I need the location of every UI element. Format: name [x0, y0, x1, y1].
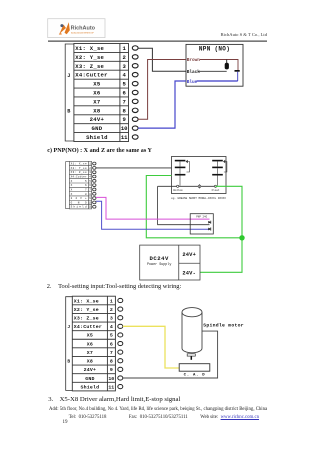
svg-text:NPN (NO): NPN (NO) [199, 45, 230, 52]
svg-text:PNP 24G: PNP 24G [196, 216, 207, 219]
header company name [221, 33, 267, 38]
wire brown label [187, 58, 201, 63]
svg-text:24V+: 24V+ [182, 252, 196, 258]
svg-text:2: 2 [110, 307, 113, 313]
svg-text:X6: X6 [87, 341, 93, 347]
wire blue pin10 GND to NPN box [138, 81, 186, 128]
svg-text:B: B [67, 358, 70, 364]
spindle motor M1 (cylinder) [182, 308, 202, 353]
wire green relay left to junction [146, 176, 242, 238]
terminal labels column (tool-setting) [74, 298, 102, 390]
svg-text:X1: X_se: X1: X_se [75, 45, 104, 52]
svg-text:X5: X5 [93, 81, 101, 88]
logo wordmark [71, 26, 96, 35]
pin terminals (tool-setting circles) [118, 298, 123, 388]
svg-text:J: J [67, 73, 70, 79]
label DC24V [147, 255, 171, 267]
connector block (tool-setting) [72, 296, 115, 391]
svg-text:X8: X8 [87, 359, 93, 365]
svg-text:X3: Z_se: X3: Z_se [75, 63, 104, 70]
svg-text:X2: Y_se: X2: Y_se [74, 307, 99, 313]
svg-text:24V+: 24V+ [84, 367, 97, 373]
svg-text:Bottom: Bottom [173, 189, 183, 192]
bracket J/B (tool-setting block) [66, 297, 73, 391]
bracket label J [67, 73, 70, 79]
svg-text:11: 11 [108, 384, 114, 390]
svg-text:24V-: 24V- [182, 271, 196, 277]
DC24V power supply PS1 [140, 245, 200, 280]
svg-text:7: 7 [123, 98, 126, 105]
svg-text:X2: Y_se: X2: Y_se [71, 167, 87, 170]
label Spindle motor [203, 323, 244, 329]
svg-text:Black: Black [187, 70, 201, 75]
svg-text:Shield: Shield [71, 205, 87, 209]
svg-text:8: 8 [110, 359, 113, 365]
load bar symbol [235, 70, 240, 81]
svg-text:5: 5 [110, 333, 113, 339]
svg-text:X7: X7 [87, 350, 93, 356]
svg-text:X5: X5 [87, 333, 93, 339]
svg-text:9: 9 [110, 367, 113, 373]
label Float [212, 188, 220, 192]
svg-text:A11 A12 A15 A18 SERIES DSP: A11 A12 A15 A18 SERIES DSP [71, 31, 95, 34]
green junction node [239, 235, 244, 240]
svg-text:Power Supply: Power Supply [147, 262, 171, 267]
pin numbers column 1-11 [121, 45, 128, 141]
svg-text:Brown: Brown [187, 58, 201, 63]
paragraph c) PNP note [47, 148, 152, 154]
cutter tip [190, 356, 192, 360]
logo mark [59, 22, 70, 34]
svg-text:Blue: Blue [187, 80, 198, 85]
svg-text:X8: X8 [93, 107, 101, 114]
svg-text:C. A. D: C. A. D [184, 373, 206, 377]
relay box caption [171, 197, 226, 200]
wire black internal segment [199, 70, 227, 72]
svg-text:Float: Float [212, 188, 220, 192]
bus terminal right [214, 185, 216, 187]
NPN(NO) sensor box U1 [186, 44, 243, 86]
label C.A.D [184, 373, 206, 377]
svg-text:RichAuto: RichAuto [71, 26, 96, 32]
wire blue internal segment [197, 80, 238, 82]
footer address line [49, 408, 267, 413]
bus terminal left [177, 185, 179, 187]
svg-text:10: 10 [121, 125, 128, 132]
wire green relay right to junction [216, 186, 243, 238]
svg-text:X4:Cutter: X4:Cutter [71, 176, 87, 179]
svg-text:10: 10 [88, 201, 92, 204]
svg-text:X4:Cutter: X4:Cutter [75, 72, 107, 79]
wire black pin2 to relay box [96, 167, 172, 169]
label 24V+ [182, 252, 196, 258]
small connector pins [93, 162, 96, 208]
wire black pin1 to NPN box [138, 48, 186, 71]
label Bottom [173, 189, 183, 192]
svg-text:X4:Cutter: X4:Cutter [74, 324, 102, 330]
svg-text:GND: GND [91, 125, 102, 132]
footer page number [63, 420, 68, 425]
PNP box diode D2 [208, 227, 211, 230]
bracket label B [67, 108, 70, 114]
svg-text:B: B [67, 108, 70, 114]
pin terminals (circles) [132, 46, 138, 140]
svg-text:11: 11 [88, 206, 92, 209]
wire blue pin10 to PNP box [96, 201, 210, 229]
wire magenta pin9 to PNP box [96, 197, 210, 219]
svg-text:10: 10 [108, 376, 114, 382]
wire black label [187, 70, 201, 75]
footer tel fax line [69, 416, 107, 421]
paragraph 3 driver alarm [48, 397, 53, 404]
float switch S2 (right) [212, 160, 227, 186]
small connector row labels [71, 163, 92, 209]
svg-text:3: 3 [110, 316, 113, 322]
svg-text:X3: Z_se: X3: Z_se [74, 316, 99, 322]
bracket label J [67, 324, 70, 330]
wire black bus to PNP box [158, 186, 210, 224]
svg-text:1: 1 [110, 298, 113, 304]
svg-text:X2: Y_se: X2: Y_se [75, 54, 104, 61]
svg-text:Spindle motor: Spindle motor [203, 323, 244, 329]
connector block B (input terminal table) [74, 44, 129, 142]
svg-text:24V+: 24V+ [90, 116, 105, 123]
svg-text:X3: Z_se: X3: Z_se [71, 171, 87, 174]
svg-text:eg. GREASE SHOOT MODEL-DXXXL D: eg. GREASE SHOOT MODEL-DXXXL DXXXX [171, 197, 226, 200]
bus center lamp symbol [198, 184, 201, 189]
paragraph 2 tool-setting [47, 284, 52, 290]
PNP sensor box U2 [190, 214, 213, 234]
wire blue label [187, 80, 198, 85]
bracket label B [67, 358, 70, 364]
pin numbers column (tool-setting) [108, 298, 114, 390]
svg-text:11: 11 [121, 134, 128, 141]
bottom bus wire in relay box [158, 185, 216, 187]
svg-text:X1: X_se: X1: X_se [71, 163, 87, 166]
tool-setting touch plate C.A.D [179, 364, 210, 372]
wire green junction to 24V- [200, 238, 242, 272]
svg-text:X1: X_se: X1: X_se [74, 298, 99, 304]
svg-text:Shield: Shield [80, 384, 99, 390]
svg-text:X7: X7 [93, 98, 100, 105]
svg-text:4: 4 [110, 324, 113, 330]
float switch S1 (left) [175, 160, 190, 186]
tool holder collet [187, 354, 195, 356]
sensor output transistor (black body) [225, 60, 229, 70]
small connector block (PNP wiring) [66, 161, 92, 209]
svg-text:GND: GND [85, 376, 94, 382]
PNP box diode D1 [208, 221, 211, 224]
wire black GND to spindle body [123, 331, 218, 378]
terminal labels column [75, 45, 107, 141]
svg-text:DC24V: DC24V [150, 255, 169, 262]
header rule [48, 40, 267, 42]
connector bracket J/B [65, 44, 74, 141]
relay/float-switch box [172, 157, 227, 194]
label 24V- [182, 271, 196, 277]
wire brown pin9 24V+ to NPN box [138, 60, 186, 120]
svg-text:6: 6 [110, 341, 113, 347]
wire brown internal segment [200, 60, 238, 71]
header logo box [48, 19, 105, 38]
svg-text:J: J [67, 324, 70, 330]
svg-text:7: 7 [110, 350, 113, 356]
svg-text:X6: X6 [93, 90, 101, 97]
wire yellow X4 cutter to touch plate [123, 326, 180, 368]
svg-text:Shield: Shield [86, 134, 108, 141]
